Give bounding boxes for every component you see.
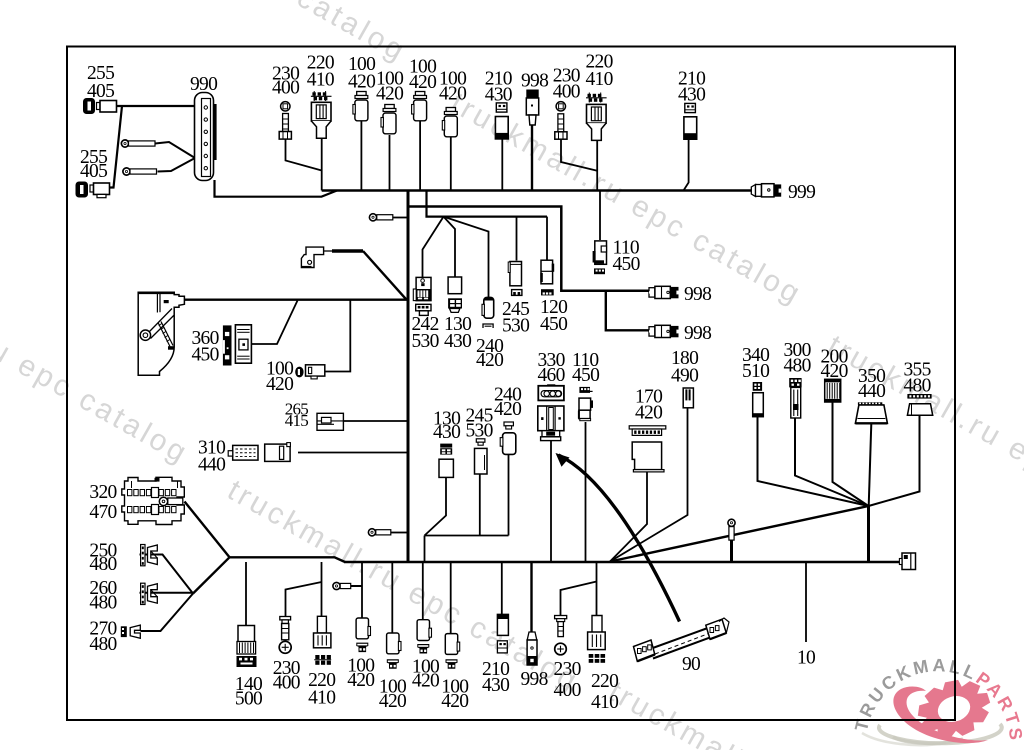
wire top bus xyxy=(322,189,751,191)
svg-text:400: 400 xyxy=(554,680,581,701)
svg-text:450: 450 xyxy=(613,254,640,275)
wire bottom-left lead xyxy=(230,557,346,562)
svg-text:430: 430 xyxy=(482,675,509,696)
wire 998 branch xyxy=(606,291,649,331)
connector bus end xyxy=(899,553,915,570)
svg-text:410: 410 xyxy=(308,687,335,708)
wire 110-450b drop xyxy=(585,422,587,561)
connector 998 no1 xyxy=(649,286,679,298)
terminal rod 2 xyxy=(123,168,157,175)
connector 130-430 top xyxy=(448,277,462,312)
connector 100-420 h xyxy=(445,634,459,669)
svg-text:450: 450 xyxy=(192,345,219,366)
wire mid drop to bus xyxy=(424,536,426,563)
connector 240-420 top xyxy=(482,297,494,328)
svg-text:420: 420 xyxy=(347,670,374,691)
wire L-clip diagonal xyxy=(363,251,407,300)
svg-text:470: 470 xyxy=(89,502,116,523)
svg-text:440: 440 xyxy=(858,381,885,402)
svg-text:530: 530 xyxy=(466,421,493,442)
bullet B4 vertical xyxy=(728,519,735,540)
connector 210-430 left xyxy=(495,103,508,139)
watermark left xyxy=(0,246,195,471)
connector 330-460 xyxy=(538,384,564,440)
svg-text:990: 990 xyxy=(190,74,217,95)
connector 100-420 f xyxy=(387,633,401,669)
svg-text:410: 410 xyxy=(586,69,613,90)
box 170-420 xyxy=(629,426,666,472)
connector 998 c xyxy=(527,632,537,665)
connector 998 top xyxy=(526,90,538,126)
svg-text:10: 10 xyxy=(797,648,815,669)
connector 100-420 left xyxy=(295,365,325,379)
wire 255-405 top xyxy=(117,105,196,107)
svg-text:480: 480 xyxy=(89,554,116,575)
connector 220-410 d xyxy=(588,616,606,663)
connector 140-500 xyxy=(237,626,257,668)
wire L-clip xyxy=(324,250,334,252)
svg-text:420: 420 xyxy=(379,691,406,712)
wire 310-440 xyxy=(298,452,407,454)
wire 220-410d drop xyxy=(596,562,598,616)
svg-text:400: 400 xyxy=(553,82,580,103)
connector 300-480 xyxy=(789,378,801,418)
connector 180-490 xyxy=(683,388,693,408)
svg-text:430: 430 xyxy=(444,331,471,352)
wire 100-420d drop xyxy=(450,137,452,191)
wire converge drop xyxy=(867,506,870,562)
wire rod2 xyxy=(158,158,196,172)
svg-text:420: 420 xyxy=(441,691,468,712)
watermark bottom-middle xyxy=(222,474,585,699)
wire mid horizontal xyxy=(425,535,509,537)
bracket assembly xyxy=(138,292,184,375)
svg-text:230: 230 xyxy=(554,659,581,680)
connector 220-410 b xyxy=(586,93,607,141)
wire fan 180-490 xyxy=(610,408,688,562)
wire 260-480 xyxy=(140,592,194,594)
svg-text:415: 415 xyxy=(285,411,309,430)
svg-text:430: 430 xyxy=(433,422,460,443)
svg-text:440: 440 xyxy=(198,455,225,476)
svg-text:450: 450 xyxy=(540,314,567,335)
connector 999 xyxy=(751,184,781,197)
wire 220-410c drop xyxy=(321,562,323,616)
connector 245-530 top xyxy=(508,262,522,296)
wire trio lead xyxy=(193,557,230,593)
wire 230-400 drop xyxy=(286,139,322,171)
connector 130-430 b xyxy=(439,444,453,478)
rail 90 xyxy=(634,618,730,661)
watermark upper-middle xyxy=(445,87,808,312)
svg-text:320: 320 xyxy=(89,482,116,503)
connector 100-420 a xyxy=(353,92,368,121)
wire 240-420m drop xyxy=(508,455,510,536)
wire 255-405 link xyxy=(109,106,122,188)
connector 265-415 xyxy=(317,413,343,430)
connector 100-420 e xyxy=(356,618,370,652)
svg-text:480: 480 xyxy=(904,376,931,397)
wire fan stub x427 xyxy=(427,191,548,217)
svg-text:480: 480 xyxy=(784,356,811,377)
bolt 230-400 top xyxy=(279,102,291,140)
svg-text:405: 405 xyxy=(80,161,107,182)
wire bullet B3 xyxy=(351,585,363,587)
svg-text:430: 430 xyxy=(678,84,705,105)
wire 230-400d branch xyxy=(561,582,597,616)
wire 230-400b drop xyxy=(561,139,597,171)
svg-text:420: 420 xyxy=(376,84,403,105)
wire to 240-420 xyxy=(444,217,489,297)
wire 320-470 diagonal xyxy=(185,502,230,558)
wire 210-430r drop xyxy=(684,139,689,191)
svg-text:450: 450 xyxy=(572,365,599,386)
svg-text:420: 420 xyxy=(476,350,503,371)
svg-text:90: 90 xyxy=(682,654,700,675)
connector 990 strip xyxy=(195,93,217,181)
wire fan 170-420 xyxy=(610,472,647,562)
connector 340-510 xyxy=(753,382,764,417)
connector 100-420 b xyxy=(381,105,396,134)
wire 300-480 xyxy=(795,419,869,507)
wire 998c drop xyxy=(530,562,532,632)
connector 200-420 xyxy=(825,379,841,402)
connector 120-450 xyxy=(540,260,554,295)
svg-text:530: 530 xyxy=(412,331,439,352)
wire 230-400c branch xyxy=(286,582,322,616)
bolt 230-400 c xyxy=(279,617,291,654)
connector 110-450 b xyxy=(578,387,593,421)
border frame xyxy=(67,47,955,721)
svg-text:460: 460 xyxy=(538,365,565,386)
wire bottom bus xyxy=(344,561,901,564)
wire 270-480 xyxy=(141,594,194,632)
wire bullet B2 xyxy=(391,532,407,534)
wire fan to converge xyxy=(610,506,869,562)
svg-text:998: 998 xyxy=(684,323,711,344)
svg-text:420: 420 xyxy=(348,71,375,92)
svg-text:998: 998 xyxy=(684,284,711,305)
wire bullet B1 xyxy=(393,217,407,219)
connector 255-405 top xyxy=(83,98,117,114)
svg-text:998: 998 xyxy=(521,669,548,690)
wire 990 to bus xyxy=(215,180,338,197)
terminal rod 1 xyxy=(121,140,155,147)
wire to 242-530 xyxy=(423,217,444,278)
svg-text:490: 490 xyxy=(671,366,698,387)
svg-text:420: 420 xyxy=(494,399,521,420)
connector 250-480 xyxy=(141,545,158,566)
wire 355-480 xyxy=(869,416,920,507)
svg-text:430: 430 xyxy=(485,85,512,106)
svg-text:480: 480 xyxy=(89,634,116,655)
wire 998 drop xyxy=(531,125,533,191)
connector 100-420 d xyxy=(442,108,457,137)
connector 210-430 c xyxy=(497,614,508,652)
watermark bottom fragment xyxy=(603,675,966,750)
connector 110-450 top xyxy=(593,241,607,274)
arrow callout xyxy=(559,455,680,622)
svg-text:420: 420 xyxy=(821,361,848,382)
svg-text:410: 410 xyxy=(591,692,618,713)
connector 320-470 assembly xyxy=(122,477,185,524)
wire to 130-430 xyxy=(444,217,456,277)
bullet B1 xyxy=(369,214,392,221)
watermark right xyxy=(822,329,1024,554)
wire 210-430 drop xyxy=(501,139,503,191)
svg-text:530: 530 xyxy=(502,316,529,337)
svg-text:220: 220 xyxy=(591,671,618,692)
connector 210-430 right xyxy=(684,103,697,139)
wire leader 10 xyxy=(805,563,807,642)
wire 100-420e drop xyxy=(361,562,363,618)
connector 240-420 m xyxy=(500,422,516,454)
logo truckmall parts xyxy=(851,655,1024,747)
connector 360-450 xyxy=(223,325,252,366)
wire 220-410b drop xyxy=(596,140,598,191)
svg-text:405: 405 xyxy=(87,81,114,102)
connector 270-480 xyxy=(121,625,141,638)
wire 350-440 xyxy=(869,424,872,507)
wire rod1 xyxy=(155,142,195,158)
wire to 110-450 xyxy=(599,191,601,241)
svg-text:999: 999 xyxy=(788,182,815,203)
connector 998 no2 xyxy=(649,325,679,337)
wire 360-450 xyxy=(252,301,298,345)
wire 200-420 xyxy=(833,403,869,507)
wire main trunk xyxy=(407,191,410,563)
wire bullet B4 tick xyxy=(730,540,733,562)
wire 220-410 drop xyxy=(321,138,323,191)
svg-text:420: 420 xyxy=(412,671,439,692)
wire 210-430c drop xyxy=(501,562,503,615)
bullet B2 xyxy=(368,529,390,536)
wire second bus xyxy=(408,207,649,291)
connector 100-420 c xyxy=(412,92,427,121)
wire to 120-450 xyxy=(546,217,548,260)
wire 330-460 drop xyxy=(550,441,552,562)
wire 250-480 xyxy=(140,555,194,594)
svg-text:400: 400 xyxy=(273,673,300,694)
wire 100-420g drop xyxy=(422,562,424,620)
svg-text:500: 500 xyxy=(235,689,262,710)
L-clip component xyxy=(301,247,323,267)
svg-text:400: 400 xyxy=(272,78,299,99)
svg-text:420: 420 xyxy=(409,72,436,93)
wire 100-420f drop xyxy=(391,562,393,633)
wire 340-510 xyxy=(758,417,869,506)
wire to 245-530 xyxy=(516,217,518,261)
svg-text:510: 510 xyxy=(742,361,769,382)
connector 260-480 xyxy=(141,583,158,604)
wire 100-420c drop xyxy=(419,121,421,191)
svg-text:420: 420 xyxy=(439,84,466,105)
wire 140-500 drop xyxy=(245,562,247,626)
watermark top-left fragment xyxy=(50,0,413,69)
connector 310-440 xyxy=(228,443,290,462)
connector 100-420 g xyxy=(417,620,431,654)
connector 255-405 bottom xyxy=(76,182,110,198)
boot 350-440 xyxy=(855,402,887,423)
wire 245-530b drop xyxy=(479,475,481,536)
wire 100-420L xyxy=(325,301,350,372)
wire 100-420b drop xyxy=(389,135,391,191)
connector 220-410 c xyxy=(314,616,332,665)
connector 245-530 b xyxy=(475,439,488,474)
svg-text:410: 410 xyxy=(307,69,334,90)
wire 265-415 xyxy=(344,420,408,422)
wire 100-420h drop xyxy=(450,562,452,634)
bolt 230-400 b xyxy=(555,102,567,140)
connector 220-410 top xyxy=(311,91,332,138)
svg-text:420: 420 xyxy=(635,403,662,424)
svg-text:480: 480 xyxy=(89,592,116,613)
svg-text:420: 420 xyxy=(266,374,293,395)
connector 355-480 xyxy=(907,394,932,415)
wire 100-420a drop xyxy=(360,121,362,191)
bolt 230-400 d xyxy=(555,616,567,655)
wire bracket bus y300 xyxy=(185,299,408,301)
connector 242-530 xyxy=(413,277,431,315)
svg-text:998: 998 xyxy=(521,70,548,91)
wire 130-430b path xyxy=(425,478,447,536)
bullet B3 xyxy=(333,582,351,589)
